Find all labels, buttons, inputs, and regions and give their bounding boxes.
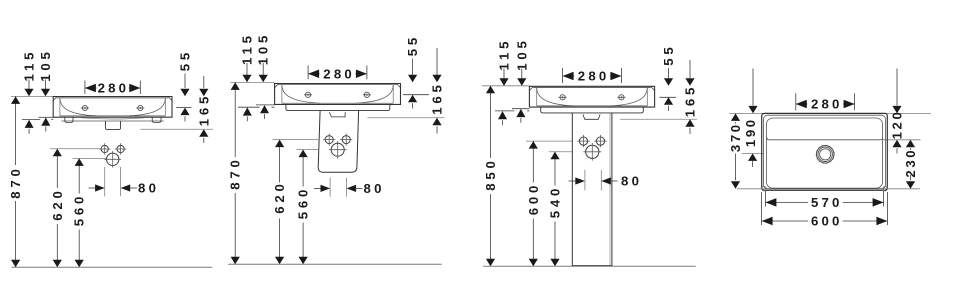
basin rim inner line P3	[533, 87, 651, 89]
dimension 560 P2	[297, 149, 319, 151]
svg-text:850: 850	[483, 157, 498, 190]
dimension 570 P4	[764, 191, 766, 207]
fixing screw right P1	[136, 105, 144, 110]
dimension 105 bottom extension P1	[39, 116, 54, 118]
basin corner chamfer right P2	[397, 84, 401, 88]
bottom edge extension line P4	[737, 188, 920, 190]
fixing screw left P1	[81, 105, 89, 110]
fixing screw right P3	[617, 95, 625, 100]
svg-text:165: 165	[683, 84, 698, 117]
svg-text:55: 55	[405, 34, 420, 56]
dimension 120 P4	[896, 69, 898, 106]
half pedestal outline P2	[318, 111, 358, 173]
panel 4: washbasin top view	[728, 69, 931, 229]
left foot tab P1	[65, 117, 73, 122]
svg-text:105: 105	[256, 32, 271, 65]
dimension 280 P4	[795, 93, 797, 110]
dimension 280 P1	[84, 81, 86, 95]
right foot tab P1	[152, 117, 161, 122]
basin corner chamfer left P1	[53, 97, 57, 101]
basin corner chamfer left P2	[275, 84, 279, 88]
bowl corner circle right P4	[883, 186, 887, 190]
dimension 80 P2	[329, 178, 331, 197]
fixing screw right P2	[363, 92, 371, 97]
basin corner chamfer right P1	[168, 97, 172, 101]
svg-text:80: 80	[138, 181, 159, 196]
bowl inner wall left P2	[281, 85, 283, 104]
fixing screw left P3	[559, 95, 567, 100]
dimension 80 P3	[584, 170, 586, 191]
svg-text:560: 560	[72, 193, 87, 226]
bottom skirt line P1	[62, 120, 164, 122]
shelf edge line P4	[767, 137, 883, 140]
dimension 105 bottom extension P2	[256, 104, 275, 106]
svg-text:115: 115	[497, 38, 512, 71]
svg-text:280: 280	[98, 81, 130, 96]
dimension 620 P1	[50, 148, 101, 150]
svg-text:600: 600	[526, 182, 541, 215]
svg-text:560: 560	[296, 186, 311, 219]
basin rim inner line P1	[57, 97, 169, 99]
drain hole P2	[331, 143, 344, 156]
svg-text:80: 80	[364, 181, 385, 196]
drain hole P3	[586, 145, 599, 158]
dimension 115 bottom extension P1	[22, 119, 40, 121]
floor line P1	[12, 266, 213, 268]
mounting hole right P2	[342, 136, 350, 144]
floor line P2	[228, 263, 442, 265]
svg-text:620: 620	[272, 180, 287, 213]
mounting hole left P1	[101, 145, 108, 152]
svg-text:115: 115	[240, 32, 255, 65]
svg-text:55: 55	[178, 49, 193, 71]
svg-text:870: 870	[8, 165, 23, 198]
basin skirt P2	[286, 104, 390, 110]
svg-text:55: 55	[661, 43, 676, 65]
dimension 115 bottom extension P2	[238, 106, 260, 108]
shelf edge extension line right P4	[883, 139, 921, 141]
mounting hole right P1	[117, 145, 124, 152]
svg-text:230: 230	[903, 148, 918, 178]
basin skirt P3	[541, 107, 644, 113]
drain outer ring P4	[817, 146, 834, 163]
bowl inner wall right P3	[646, 88, 648, 106]
svg-text:280: 280	[578, 69, 610, 84]
drain recess P3	[583, 114, 600, 119]
bowl bottom line P1	[60, 115, 165, 117]
dimension 540 P3	[549, 151, 572, 153]
dimension 190 P4	[752, 69, 754, 106]
panel 1: wall-hung washbasin front view	[8, 48, 213, 267]
svg-text:80: 80	[621, 174, 642, 189]
dimension 280 P2	[307, 66, 309, 80]
rim extension line left P3	[482, 85, 529, 87]
svg-text:570: 570	[811, 195, 843, 210]
top edge extension line P4	[730, 112, 932, 114]
fixing screw left P2	[304, 92, 312, 97]
dimension 230 P4	[906, 140, 915, 148]
pedestal outline P3	[572, 113, 612, 266]
svg-text:105: 105	[38, 48, 53, 81]
basin outer rim P4	[762, 113, 888, 190]
dimension 600 P3	[526, 140, 572, 142]
bowl bottom line P3	[537, 105, 648, 107]
basin inner rim P4	[764, 115, 886, 189]
dimension 850 P3	[490, 86, 492, 158]
mounting hole left P3	[579, 137, 587, 145]
panel 3: washbasin with pedestal front view	[482, 37, 698, 266]
svg-text:370: 370	[728, 122, 743, 152]
drain hole P1	[107, 153, 119, 165]
bowl corner circle left P4	[762, 186, 766, 190]
svg-text:190: 190	[743, 117, 758, 147]
bowl inner wall right P1	[164, 98, 166, 116]
basin outline P3	[529, 86, 654, 107]
dimension 80 P1	[104, 167, 106, 196]
svg-text:120: 120	[890, 110, 905, 140]
drain recess P2	[329, 112, 345, 117]
bowl inner wall left P1	[59, 98, 61, 116]
svg-text:115: 115	[22, 49, 37, 82]
dimension 165 P1	[203, 76, 205, 88]
basin corner chamfer right P3	[651, 86, 655, 90]
dimension 560 P1	[73, 157, 107, 159]
dimension 370 P4	[731, 113, 740, 121]
svg-text:540: 540	[548, 185, 563, 218]
svg-text:280: 280	[323, 66, 355, 81]
bowl rim P4	[766, 118, 882, 188]
svg-text:105: 105	[514, 37, 529, 70]
floor line P3	[483, 265, 696, 267]
dimension 165 P2	[436, 48, 438, 76]
drain inner circle P4	[820, 149, 831, 160]
basin rim inner line P2	[278, 84, 396, 86]
svg-text:620: 620	[50, 187, 65, 220]
bowl bottom line P2	[282, 102, 393, 104]
svg-text:870: 870	[228, 156, 243, 189]
dimension 105 bottom extension P3	[512, 108, 529, 110]
dimension 280 P3	[562, 68, 564, 83]
bowl inner wall right P2	[392, 85, 394, 104]
svg-text:165: 165	[196, 93, 211, 126]
drain slope arc P1	[81, 118, 144, 119]
dimension 870 P2	[234, 82, 236, 157]
dimension 870 P1	[15, 96, 17, 165]
pedestal inner edge P3	[609, 113, 611, 266]
basin outline P1	[53, 97, 172, 118]
basin outline P2	[275, 84, 401, 105]
drain middle ring P4	[818, 147, 832, 161]
rim extension line left P2	[231, 81, 275, 83]
pedestal base line P3	[572, 265, 613, 267]
svg-text:165: 165	[430, 81, 445, 114]
mounting hole right P3	[596, 137, 604, 145]
wire: wall/rim extension line left	[11, 95, 53, 97]
drain tab P1	[105, 121, 120, 130]
dimension 620 P2	[273, 139, 319, 141]
dimension 115 bottom extension P3	[495, 110, 514, 112]
panel 2: washbasin with siphon cover front view	[228, 32, 445, 264]
dimension 165 P3	[689, 60, 691, 78]
bowl inner wall left P3	[536, 88, 538, 106]
basin corner chamfer left P3	[529, 86, 533, 90]
svg-text:600: 600	[811, 214, 843, 229]
svg-text:280: 280	[811, 97, 843, 112]
drain level extension line left P4	[742, 152, 764, 154]
mounting hole left P2	[325, 136, 333, 144]
dimension 600 P4	[761, 192, 763, 225]
